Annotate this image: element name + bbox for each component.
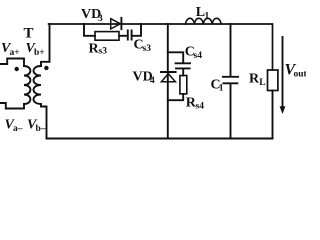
transformer T secondary polarity dot — [44, 66, 48, 70]
svg-text:1: 1 — [205, 12, 210, 22]
svg-text:out: out — [294, 70, 307, 80]
inductor L1 — [186, 18, 222, 24]
svg-text:4: 4 — [150, 76, 155, 86]
transformer T secondary winding — [34, 66, 42, 104]
svg-text:3: 3 — [98, 14, 103, 24]
svg-text:T: T — [24, 26, 34, 42]
svg-text:1: 1 — [219, 84, 224, 94]
wire: primary bottom terminal — [0, 103, 24, 109]
wire: C1 branch upper — [230, 24, 232, 76]
wire: snubber-3 drop from top rail — [84, 24, 95, 36]
capacitor Cs4 — [176, 63, 190, 68]
capacitor Cs3 — [128, 31, 132, 40]
resistor RL — [268, 70, 278, 91]
wire: Rs4 bottom connector to VD4 branch — [168, 94, 183, 100]
transformer T primary polarity dot — [15, 67, 19, 71]
wire: Rs3 to Cs3 — [119, 35, 128, 37]
wire: C1 branch lower — [230, 84, 232, 139]
wire: bottom rail — [47, 138, 273, 140]
wire: secondary bottom lead to bottom rail — [41, 104, 47, 139]
diode VD4 — [161, 71, 176, 73]
transformer T primary winding — [24, 66, 30, 104]
capacitor C1 — [223, 77, 238, 84]
resistor Rs4 — [180, 76, 187, 94]
wire: VD4 branch vertical (top rail to bottom rail) — [167, 24, 169, 139]
wire: secondary top lead (from top rail down to winding) — [41, 24, 50, 66]
resistor Rs3 — [95, 32, 119, 41]
svg-text:L: L — [259, 78, 265, 88]
svg-text:s3: s3 — [143, 44, 152, 54]
wire: Cs4 top connector — [168, 52, 183, 62]
svg-text:s4: s4 — [196, 102, 205, 112]
wire: Cs3 riser to top rail — [132, 24, 141, 36]
wire: top rail with right corner down to RL — [49, 24, 273, 70]
wire: RL bottom lead — [272, 91, 274, 139]
diode VD3 — [111, 19, 121, 29]
svg-text:b+: b+ — [34, 48, 45, 58]
svg-text:s3: s3 — [99, 47, 108, 57]
svg-text:s4: s4 — [194, 51, 203, 61]
svg-text:b–: b– — [36, 124, 46, 134]
wire: Cs4 to Rs4 — [182, 69, 184, 75]
Vout arrowhead — [280, 106, 286, 114]
svg-text:a+: a+ — [10, 48, 20, 58]
svg-text:a–: a– — [13, 124, 23, 134]
Vout arrow line — [282, 37, 284, 108]
wire: primary top terminal (left edge to winding T) — [0, 59, 24, 67]
